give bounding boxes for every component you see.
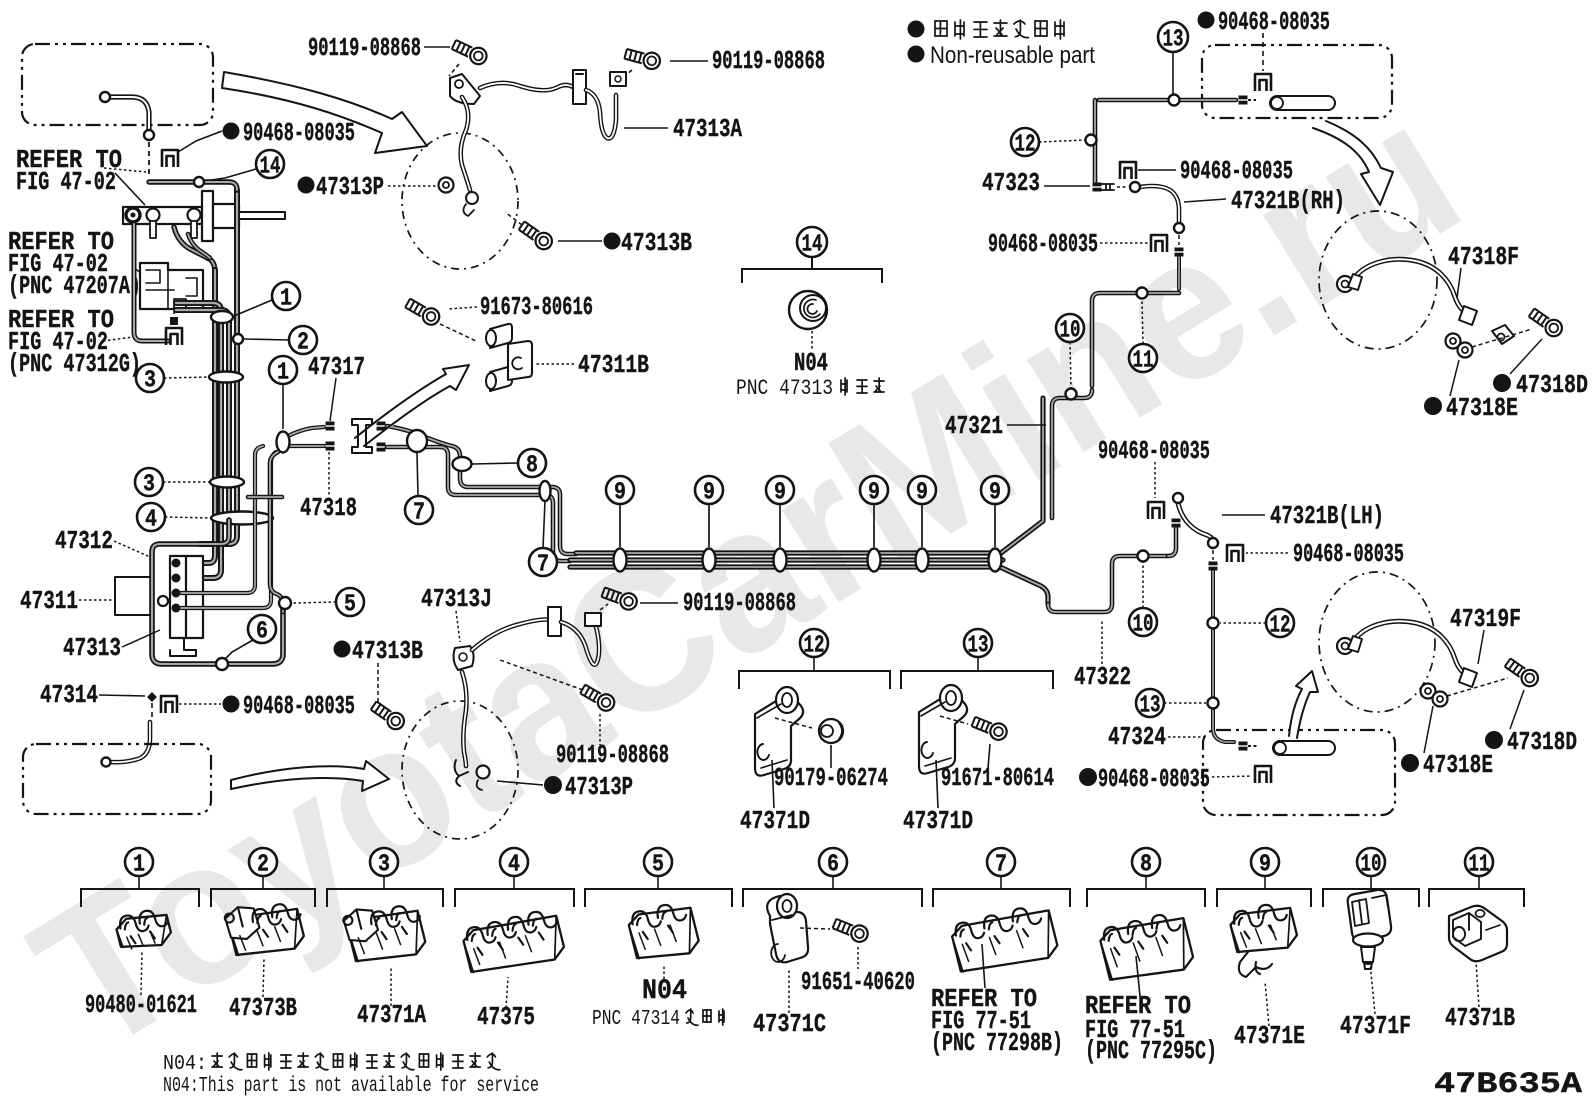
dot 90468 bottomright bbox=[1079, 768, 1097, 786]
band clamp ellipse 9-4 bbox=[868, 549, 881, 572]
tube 47321 vert F bbox=[1093, 100, 1098, 182]
svg-text:N04: N04 bbox=[642, 976, 687, 1007]
svg-text:47317: 47317 bbox=[308, 352, 365, 382]
corner up to LH fit bbox=[1168, 528, 1176, 556]
push rod bbox=[239, 212, 285, 219]
sq fitting jl2 bbox=[326, 442, 335, 451]
leader c10a bbox=[1070, 342, 1071, 388]
leader p8 bbox=[1136, 956, 1140, 996]
icon 47371B bbox=[1449, 906, 1507, 962]
svg-text:90468-08035: 90468-08035 bbox=[243, 118, 355, 148]
clip right2 bbox=[1227, 545, 1243, 562]
circled 6 bbox=[248, 615, 276, 643]
svg-text:47319F: 47319F bbox=[1450, 604, 1521, 634]
svg-text:90468-08035: 90468-08035 bbox=[1098, 436, 1210, 466]
leader 91671 bbox=[988, 744, 990, 768]
fitting LH up bbox=[1172, 519, 1181, 528]
svg-text:90468-08035: 90468-08035 bbox=[243, 691, 355, 721]
circled 13 #2 bbox=[1136, 689, 1164, 717]
tube 47313 to A bbox=[480, 83, 573, 90]
connector 47313J bbox=[585, 613, 601, 626]
tube D bbox=[1092, 293, 1179, 386]
tube end circle b bbox=[144, 130, 154, 140]
svg-text:47312: 47312 bbox=[55, 526, 113, 556]
leader c5 bbox=[293, 602, 336, 603]
svg-text:47322: 47322 bbox=[1074, 662, 1131, 692]
svg-text:13: 13 bbox=[968, 633, 989, 660]
leader refer1 bbox=[104, 168, 146, 172]
leader c1a bbox=[234, 300, 272, 316]
svg-text:47313P: 47313P bbox=[316, 172, 384, 202]
node 5 bbox=[279, 597, 291, 609]
svg-text:47373B: 47373B bbox=[229, 993, 297, 1023]
dot 47318E top bbox=[1424, 397, 1442, 415]
bracket row 6 bbox=[832, 875, 834, 889]
dashed bolt-47313B bbox=[505, 212, 522, 225]
manifold plate bbox=[170, 556, 203, 638]
circled 2 bbox=[289, 326, 317, 354]
bolt 47313B #2 bbox=[369, 699, 407, 733]
svg-text:1: 1 bbox=[280, 286, 292, 313]
port dot 2 bbox=[172, 574, 181, 583]
mc cap 2 bbox=[188, 209, 201, 222]
bracket row 1 bbox=[138, 875, 140, 889]
svg-text:47318: 47318 bbox=[300, 493, 357, 523]
47314 connector bbox=[147, 692, 157, 702]
nut 90179 bbox=[819, 719, 843, 743]
leader 47313P #2 bbox=[497, 781, 543, 785]
leader 91651 bbox=[857, 947, 859, 969]
svg-text:90119-08868: 90119-08868 bbox=[308, 33, 421, 63]
circled 8 row bbox=[1132, 848, 1160, 876]
fitting 47319F bbox=[1337, 638, 1353, 654]
svg-text:12: 12 bbox=[804, 633, 825, 660]
sq fitting jl1 bbox=[326, 422, 335, 431]
circled 7 #1 bbox=[405, 496, 433, 524]
U tube 47322 bbox=[1048, 556, 1168, 612]
clip mid right bbox=[1120, 162, 1136, 179]
circled 6 row bbox=[819, 848, 847, 876]
bracket row 10 bbox=[1370, 875, 1372, 889]
circled 13 #3 bbox=[964, 629, 992, 657]
banjo 47313J bbox=[477, 766, 490, 779]
bracket 47311B bbox=[490, 324, 512, 348]
band clamp ellipse 9-2 bbox=[703, 549, 716, 572]
leader 47311 bbox=[79, 599, 112, 601]
svg-text:47371B: 47371B bbox=[1445, 1003, 1515, 1033]
svg-text:11: 11 bbox=[1469, 852, 1490, 879]
junction left tube lower bbox=[288, 444, 324, 448]
node 12b bbox=[1208, 618, 1219, 629]
dashed 47318 bot bbox=[1447, 678, 1508, 696]
bracket row 4 bbox=[513, 875, 515, 889]
port tube 4 bbox=[181, 452, 276, 608]
fitting 47318F bbox=[1337, 276, 1353, 292]
svg-text:47321B(LH): 47321B(LH) bbox=[1270, 501, 1384, 531]
port tube 3 bbox=[181, 446, 263, 593]
dashed clip top bbox=[1262, 33, 1264, 71]
leader 90179 bbox=[830, 745, 832, 768]
leader c3a bbox=[164, 377, 209, 378]
rear axle box RH bbox=[1202, 45, 1392, 118]
svg-text:47313P: 47313P bbox=[565, 772, 633, 802]
circled 1 row bbox=[125, 848, 153, 876]
node 13b bbox=[1208, 698, 1219, 709]
leader 9-4 bbox=[873, 504, 875, 547]
band tube top bbox=[576, 398, 1043, 553]
clamp ellipse 7b bbox=[540, 481, 551, 501]
svg-text:90468-08035: 90468-08035 bbox=[1098, 764, 1210, 794]
svg-text:5: 5 bbox=[344, 592, 356, 619]
tick c14b bbox=[811, 257, 813, 269]
bolt 47318 top bbox=[1527, 306, 1565, 340]
clamp icon 1 bbox=[114, 906, 173, 954]
circled 11 bbox=[1129, 344, 1157, 372]
dashed 47371C bbox=[800, 928, 830, 929]
circled 9-4 bbox=[860, 476, 888, 504]
circled 4 row bbox=[500, 848, 528, 876]
circled 14 #2 bbox=[797, 227, 827, 257]
svg-text:47314: 47314 bbox=[40, 680, 98, 710]
leader 47321 bbox=[1007, 424, 1046, 426]
leader c3b bbox=[163, 481, 210, 483]
clamp ellipse 4 bbox=[211, 512, 273, 525]
leader refer2 bbox=[133, 267, 167, 293]
hose 47313J main bbox=[472, 620, 552, 651]
dot 47313P #1 bbox=[298, 177, 315, 194]
svg-text:6: 6 bbox=[256, 619, 268, 646]
svg-text:47323: 47323 bbox=[982, 168, 1040, 198]
rings 47318E bot bbox=[1421, 684, 1436, 699]
clamp ellipse step bbox=[407, 430, 427, 452]
svg-text:8: 8 bbox=[526, 453, 538, 480]
svg-text:PNC 47314: PNC 47314 bbox=[592, 1008, 680, 1031]
svg-text:47B635A: 47B635A bbox=[1434, 1068, 1582, 1099]
abs dashed drop bbox=[173, 305, 175, 316]
svg-text:12: 12 bbox=[1015, 132, 1036, 159]
circled 1 #2 bbox=[269, 356, 297, 384]
leader 90119 #1 dash bbox=[449, 64, 459, 76]
legend jp bbox=[935, 21, 947, 36]
step tube upper bbox=[387, 426, 576, 554]
dashed LH hose-fit bbox=[1212, 550, 1214, 560]
jog tube to node5 bbox=[270, 452, 283, 612]
bundle tube c bbox=[176, 303, 221, 578]
clamp ellipse 1 bbox=[211, 311, 233, 323]
node 10b bbox=[1138, 551, 1149, 562]
leader 47321BRH bbox=[1184, 199, 1226, 202]
leader p2 bbox=[263, 958, 264, 997]
svg-text:9: 9 bbox=[1259, 852, 1271, 879]
dashed ellipse 47319F bbox=[1319, 572, 1435, 712]
tube 47321 top bbox=[1099, 98, 1236, 103]
part 47371D left bbox=[755, 696, 803, 776]
leader c13a bbox=[1172, 52, 1174, 94]
circled 8 bbox=[518, 449, 546, 477]
leader 47311B bbox=[534, 363, 574, 365]
dot 47313B #2 bbox=[334, 641, 351, 658]
circled 5 row bbox=[644, 848, 672, 876]
svg-text:9: 9 bbox=[774, 480, 786, 507]
bracket row 5 bbox=[657, 875, 659, 889]
svg-text:3: 3 bbox=[143, 472, 155, 499]
dashed conn-bolt J bbox=[600, 604, 608, 610]
svg-text:47321: 47321 bbox=[945, 411, 1003, 441]
dot 47313B #1 bbox=[604, 233, 621, 250]
icon 47371C bbox=[767, 896, 808, 962]
legend dot jp bbox=[908, 21, 925, 38]
leader 47371D R bbox=[936, 760, 938, 808]
svg-text:47371C: 47371C bbox=[753, 1009, 826, 1039]
clamp ellipse 3b bbox=[210, 477, 244, 488]
dashed 47318 top bbox=[1472, 329, 1532, 347]
node near c14 bbox=[194, 177, 204, 187]
fitting RH drop bbox=[1175, 248, 1184, 257]
circled 1 #1 bbox=[272, 282, 300, 310]
leader refer1b bbox=[115, 173, 145, 205]
svg-text:47313B: 47313B bbox=[352, 636, 423, 666]
svg-text:12: 12 bbox=[1270, 613, 1291, 640]
leader p9 bbox=[1265, 982, 1269, 1026]
circled 10 row bbox=[1357, 848, 1385, 876]
tube end circle bbox=[100, 92, 110, 102]
pipe rear RH bbox=[1270, 96, 1335, 110]
tube end circle 47314 bbox=[102, 758, 111, 767]
bolt 47313B #1 bbox=[517, 219, 555, 253]
bundle tube b bbox=[181, 270, 215, 563]
circled 3 row bbox=[370, 848, 398, 876]
dashed 47323-hose bbox=[1117, 186, 1128, 188]
leader 47318D top bbox=[1510, 339, 1542, 374]
junction 47318 body bbox=[352, 419, 372, 453]
svg-text:47371D: 47371D bbox=[903, 806, 973, 836]
node 13a bbox=[1169, 95, 1180, 106]
svg-text:90468-08035: 90468-08035 bbox=[1180, 156, 1293, 186]
bracket 47313J A bbox=[454, 646, 474, 670]
svg-text:10: 10 bbox=[1361, 852, 1382, 879]
leader 90468 l2 bbox=[1100, 242, 1148, 244]
leader 9-1 bbox=[619, 504, 621, 547]
svg-text:(PNC 77295C): (PNC 77295C) bbox=[1085, 1036, 1217, 1066]
bundle tube d bbox=[176, 310, 229, 520]
leader c7b bbox=[543, 501, 545, 548]
svg-text:47324: 47324 bbox=[1108, 722, 1166, 752]
abs box inner bbox=[146, 270, 197, 309]
bolt 91671 bbox=[970, 714, 1009, 742]
svg-text:47313A: 47313A bbox=[673, 114, 742, 144]
bolt 90119 #2 bbox=[624, 46, 662, 71]
circled 9-1 bbox=[606, 476, 634, 504]
band tube bot bbox=[570, 567, 1048, 604]
band clamp ellipse 9-6 bbox=[989, 549, 1002, 572]
svg-text:90119-08868: 90119-08868 bbox=[556, 740, 669, 770]
leader p7 bbox=[982, 944, 985, 988]
bracket row 7 bbox=[1000, 875, 1002, 889]
circled 12 #1 bbox=[1011, 128, 1039, 156]
svg-text:47318E: 47318E bbox=[1423, 750, 1493, 780]
dashed 91673 bbox=[440, 324, 478, 342]
port dot 4 bbox=[172, 604, 181, 613]
svg-text:9: 9 bbox=[916, 480, 928, 507]
leader c4 bbox=[165, 517, 211, 518]
small arrow up right bbox=[1289, 671, 1318, 738]
leader 91673 bbox=[448, 307, 477, 309]
bolt 91673 bbox=[404, 296, 443, 328]
svg-text:11: 11 bbox=[1133, 348, 1154, 375]
svg-text:90119-08868: 90119-08868 bbox=[683, 588, 796, 618]
leader 47318D bot bbox=[1510, 690, 1524, 729]
clamp ellipse 47317 bbox=[277, 432, 290, 453]
leader N04 bbox=[811, 331, 813, 350]
leader 47318E top bbox=[1450, 360, 1459, 396]
sq fitting jr2 bbox=[377, 443, 386, 452]
svg-text:90468-08035: 90468-08035 bbox=[988, 229, 1098, 259]
fitting rear RH bbox=[1239, 96, 1248, 105]
svg-text:91651-40620: 91651-40620 bbox=[801, 967, 915, 997]
leader c6 bbox=[226, 640, 253, 658]
bracket row 11 bbox=[1478, 875, 1480, 889]
clamp icon 8 bbox=[1098, 909, 1196, 987]
hose 47313 S-drop bbox=[461, 97, 470, 190]
hose 47313J tail bbox=[462, 672, 467, 766]
bolt 90119 #4 bbox=[579, 682, 618, 714]
dashed drop from box tube bbox=[148, 142, 150, 177]
circled 14 #1 bbox=[256, 150, 284, 178]
leader p1 bbox=[141, 950, 142, 995]
circled 2 row bbox=[249, 848, 277, 876]
svg-text:PNC 47313: PNC 47313 bbox=[736, 376, 833, 401]
band tube mid bbox=[570, 557, 1003, 562]
svg-text:4: 4 bbox=[145, 507, 157, 534]
leader 90119 #2 bbox=[670, 60, 708, 62]
clip rear RH bbox=[1255, 74, 1271, 91]
leader 90119 #4 bbox=[599, 714, 601, 745]
leader c10b bbox=[1142, 562, 1144, 608]
short horiz y497 bbox=[248, 495, 282, 500]
leader dash bolt2 bbox=[621, 70, 632, 79]
circled 9-3 bbox=[766, 476, 794, 504]
hose LH end b bbox=[1208, 538, 1218, 548]
svg-text:3: 3 bbox=[378, 852, 390, 879]
leader 47314 bbox=[99, 695, 145, 696]
leader c14 bbox=[205, 169, 256, 181]
leader c8 bbox=[472, 463, 518, 464]
hose 47321B LH bbox=[1178, 503, 1214, 544]
bracket 47313J B bbox=[548, 607, 561, 636]
leader 90119 #1 bbox=[424, 46, 450, 48]
leader 47318 bbox=[328, 452, 330, 496]
bolt 91651 bbox=[831, 916, 870, 944]
svg-text:1: 1 bbox=[133, 852, 145, 879]
fitting LH drop bbox=[1209, 562, 1218, 571]
leader p4 bbox=[506, 977, 508, 1008]
svg-text:7: 7 bbox=[995, 852, 1007, 879]
bracket 12c bbox=[739, 671, 890, 689]
svg-text:8: 8 bbox=[1140, 852, 1152, 879]
leader 90468 #2 bbox=[179, 703, 221, 705]
circled 3 #1 bbox=[136, 364, 164, 392]
clip rear LH bbox=[1255, 766, 1271, 783]
mc outlet diag 2 bbox=[188, 234, 210, 258]
leader 47318F bbox=[1457, 268, 1461, 298]
dashed RH hose-fit bbox=[1178, 235, 1180, 245]
clip 90468 #2 bbox=[161, 696, 177, 713]
manifold foot bbox=[170, 638, 196, 656]
bracket 47313 B bbox=[573, 70, 586, 104]
bracket 14 bbox=[742, 269, 882, 283]
abs connector bbox=[174, 299, 186, 308]
leader 47322 bbox=[1101, 620, 1103, 664]
svg-text:(PNC 47207A): (PNC 47207A) bbox=[8, 271, 141, 301]
leader 90119 #3 bbox=[640, 602, 678, 604]
svg-text:5: 5 bbox=[652, 852, 664, 879]
leader c12b bbox=[1220, 622, 1266, 624]
pipe rear LH bbox=[1273, 741, 1335, 755]
port dot 3 bbox=[172, 589, 181, 598]
node 2 bbox=[233, 334, 243, 344]
manifold bolt bbox=[158, 596, 168, 606]
dashed 47314 bbox=[151, 703, 153, 719]
left tall tube bbox=[134, 224, 168, 341]
svg-text:91671-80614: 91671-80614 bbox=[941, 763, 1054, 793]
leader 90468 mid bbox=[1154, 462, 1156, 498]
leader c11 bbox=[1142, 300, 1143, 344]
bolt 47318 bot bbox=[1503, 656, 1541, 690]
rear axle box LH bbox=[1203, 730, 1395, 815]
node 12a bbox=[1086, 135, 1097, 146]
svg-text:9: 9 bbox=[868, 480, 880, 507]
svg-text:47318E: 47318E bbox=[1446, 393, 1518, 423]
clip 90468 left2 bbox=[1151, 235, 1167, 252]
circled 13 #1 bbox=[1158, 22, 1188, 52]
svg-text:47313B: 47313B bbox=[621, 228, 692, 258]
circled 4 bbox=[137, 503, 165, 531]
legend dot en bbox=[908, 46, 925, 63]
fitting 47323 bbox=[1093, 183, 1102, 192]
clip at left tube bbox=[166, 328, 182, 345]
banjo 47313 end bbox=[466, 192, 478, 204]
svg-text:90468-08035: 90468-08035 bbox=[1218, 7, 1330, 37]
leader c2 bbox=[244, 339, 289, 340]
leader 47317 bbox=[330, 378, 336, 421]
node 10a bbox=[1066, 389, 1077, 400]
leader c1b bbox=[282, 384, 284, 429]
grommet N04 bbox=[789, 291, 827, 329]
clamp icon 9 bbox=[1228, 899, 1300, 960]
leader 90468 br bbox=[1212, 776, 1252, 777]
mc cylinder bbox=[213, 204, 239, 228]
circled 12 #3 bbox=[800, 629, 828, 657]
circled 3 #2 bbox=[135, 468, 163, 496]
circled 9-5 bbox=[908, 476, 936, 504]
svg-text:10: 10 bbox=[1060, 318, 1081, 345]
hose RH end a bbox=[1130, 182, 1140, 192]
bolt 90119 #1 bbox=[450, 37, 489, 67]
banjo 47318D top bbox=[1492, 325, 1514, 344]
leader 47312 bbox=[114, 541, 150, 557]
svg-text:(PNC 47312G): (PNC 47312G) bbox=[8, 349, 141, 379]
leader 47313P #1 bbox=[388, 185, 436, 187]
fitting rear LH bbox=[1239, 742, 1248, 751]
rear axle box top-left bbox=[22, 44, 213, 125]
svg-text:2: 2 bbox=[257, 852, 269, 879]
clamp ellipse 3a bbox=[209, 372, 243, 383]
svg-text:N04: N04 bbox=[794, 348, 828, 378]
band clamp ellipse 9-3 bbox=[774, 549, 787, 572]
clip LH bbox=[1148, 502, 1164, 519]
tube B bbox=[1052, 390, 1092, 518]
svg-text:47313J: 47313J bbox=[421, 584, 492, 614]
